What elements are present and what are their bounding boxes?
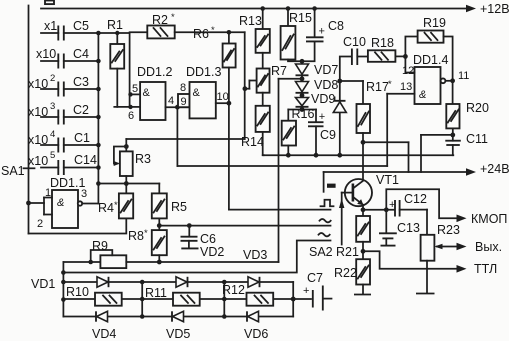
svg-text:VD5: VD5	[166, 327, 190, 341]
resistor R17*	[357, 79, 393, 145]
wire R17 bottom to +24 riser	[363, 142, 409, 172]
svg-text:+12В: +12В	[480, 2, 509, 16]
svg-text:КМОП: КМОП	[471, 212, 507, 226]
resistor R6*	[193, 25, 236, 103]
svg-text:C1: C1	[74, 131, 90, 145]
rail L2 (pin4 column to pin13)	[177, 94, 387, 166]
svg-text:R6: R6	[193, 27, 209, 41]
resistor R15	[281, 6, 312, 61]
svg-text:R9: R9	[92, 239, 108, 253]
diode VD7	[296, 61, 339, 81]
gate DD1.3	[186, 65, 221, 118]
svg-text:R18: R18	[371, 36, 394, 50]
net row R8 bottom y262	[159, 261, 278, 263]
diode top row 3	[248, 277, 260, 287]
zener diode (C10 node)	[333, 79, 346, 156]
capacitor C2 with x10^3 throw	[28, 101, 98, 125]
resistor R19	[403, 16, 453, 81]
svg-text:x1: x1	[44, 19, 57, 33]
svg-text:VD9: VD9	[311, 92, 335, 106]
svg-text:10: 10	[217, 91, 229, 103]
svg-text:R19: R19	[423, 16, 446, 30]
svg-text:R14: R14	[241, 135, 264, 149]
capacitor C11	[445, 132, 488, 155]
svg-text:R22: R22	[334, 266, 357, 280]
resistor R10	[66, 285, 122, 306]
svg-text:ТТЛ: ТТЛ	[474, 262, 497, 276]
potentiometer R23	[421, 223, 460, 293]
svg-text:R17: R17	[366, 80, 389, 94]
ground R23	[416, 293, 435, 295]
resistor R2*	[130, 12, 245, 38]
capacitor C7	[303, 271, 332, 311]
gate DD1.4	[387, 53, 469, 104]
svg-text:R13: R13	[239, 14, 262, 28]
ladder tie column right	[291, 282, 296, 317]
netB row y272.5 to SA2 sine throw	[61, 241, 330, 275]
resistor R9 with wiper	[63, 239, 159, 268]
capacitor C12	[389, 192, 427, 217]
svg-text:C3: C3	[73, 75, 89, 89]
svg-text:R16: R16	[292, 107, 315, 121]
svg-text:&: &	[143, 87, 151, 99]
diode top row 2	[176, 277, 188, 287]
svg-text:3: 3	[50, 101, 55, 112]
svg-text:R12: R12	[222, 283, 245, 297]
pin 10 wire DD1.3 output	[216, 91, 232, 106]
SA2 throw 3 sine wire from R5/R8 node	[159, 219, 330, 226]
node VD9 bottom taps	[288, 107, 316, 112]
svg-text:VD4: VD4	[92, 327, 116, 341]
wiper column wire to R3	[126, 32, 244, 139]
resistor R12	[222, 283, 273, 306]
svg-text:C11: C11	[466, 132, 488, 146]
svg-text:R10: R10	[66, 285, 89, 299]
svg-text:x10: x10	[28, 154, 48, 168]
svg-text:x10: x10	[28, 133, 48, 147]
svg-text:R20: R20	[466, 101, 489, 115]
svg-text:x10: x10	[28, 77, 48, 91]
resistor R11	[145, 286, 200, 306]
svg-text:C12: C12	[404, 192, 427, 206]
capacitor C5 with x1 throw	[41, 19, 98, 41]
pin 4 wire DD1.2 output	[166, 95, 190, 110]
svg-text:+24В: +24В	[480, 162, 509, 176]
svg-text:C5: C5	[73, 19, 89, 33]
svg-text:VD2: VD2	[200, 245, 224, 259]
Vyh output wiper arrow	[434, 240, 502, 254]
cropped symbol top-left	[45, 1, 54, 5]
svg-text:R3: R3	[135, 152, 151, 166]
svg-text:&: &	[57, 197, 64, 209]
SA2 throw 1 square symbol	[324, 172, 336, 192]
svg-text:8: 8	[180, 82, 186, 94]
diode VD2 (small)	[181, 241, 224, 259]
resistor R4*	[29, 184, 134, 234]
svg-text:R15: R15	[289, 11, 312, 25]
svg-text:&: &	[419, 89, 426, 101]
svg-text:R8: R8	[128, 229, 144, 243]
gate DD1.1	[26, 176, 87, 230]
ground R22	[354, 294, 371, 296]
potentiometer R3	[114, 139, 151, 184]
svg-text:C8: C8	[328, 19, 344, 33]
ladder tie column 2	[222, 280, 227, 319]
SA1 left rail	[1, 6, 35, 234]
capacitor C9	[308, 110, 336, 156]
svg-text:DD1.4: DD1.4	[413, 53, 448, 67]
resistor R14	[241, 93, 270, 156]
svg-text:C2: C2	[73, 103, 89, 117]
resistor R16	[282, 107, 315, 155]
SA2 throw 4 sine symbol	[319, 233, 330, 236]
svg-text:+: +	[319, 111, 325, 123]
svg-text:C10: C10	[343, 35, 366, 49]
resistor R8*	[128, 228, 167, 264]
wire timing node top row	[98, 31, 129, 107]
resistor R21	[336, 210, 370, 259]
svg-text:VD8: VD8	[314, 78, 338, 92]
capacitor C1 with x10^4 throw	[28, 129, 98, 153]
svg-text:VD7: VD7	[314, 63, 338, 77]
svg-text:x10: x10	[36, 47, 56, 61]
svg-text:*: *	[211, 25, 215, 36]
svg-text:R2: R2	[152, 13, 168, 27]
svg-text:5: 5	[132, 83, 138, 95]
rail L3 +24V	[324, 162, 509, 176]
svg-text:VD1: VD1	[31, 277, 55, 291]
svg-text:C7: C7	[307, 271, 323, 285]
svg-text:DD1.3: DD1.3	[186, 65, 221, 79]
diode VD4	[92, 311, 116, 341]
transistor VT1	[342, 142, 399, 210]
resistor R13	[239, 6, 270, 53]
svg-text:2: 2	[50, 73, 55, 84]
svg-text:C4: C4	[73, 47, 89, 61]
DD1.4 output bubble pin 11	[441, 78, 455, 83]
SA2 wiper	[309, 193, 344, 259]
ladder left vertical	[61, 262, 66, 317]
svg-text:4: 4	[50, 129, 55, 140]
svg-text:+: +	[319, 26, 325, 38]
rail L1 (R14 to C11 bottom)	[263, 153, 454, 158]
resistor R18	[368, 36, 406, 62]
TTL wire	[363, 251, 497, 276]
svg-text:R11: R11	[145, 286, 167, 300]
svg-text:R4: R4	[98, 201, 114, 215]
svg-text:x10: x10	[28, 105, 48, 119]
riser C12 to R23	[426, 210, 428, 235]
netA riser from VD7/VD8 node	[279, 79, 303, 262]
pin 9 box	[178, 82, 190, 108]
svg-text:C14: C14	[74, 153, 97, 167]
svg-text:3: 3	[81, 188, 87, 200]
KMOP wire	[386, 189, 507, 226]
svg-text:C9: C9	[320, 128, 336, 142]
svg-text:*: *	[388, 79, 392, 90]
diode VD1 (top row 1)	[97, 277, 109, 287]
resistor R22	[334, 259, 370, 294]
ladder tie column 1	[140, 280, 145, 319]
svg-text:DD1.2: DD1.2	[137, 65, 172, 79]
svg-text:*: *	[171, 12, 175, 23]
svg-text:6: 6	[128, 110, 134, 122]
resistor R5	[152, 184, 187, 231]
svg-text:VD6: VD6	[244, 327, 268, 341]
+12V top rail	[41, 2, 509, 16]
capacitor C3 with x10^2 throw	[28, 73, 98, 97]
SA2 throw 2 pulse wire from DD1.3 output	[229, 103, 334, 209]
capacitor C13	[379, 210, 420, 245]
ladder bottom row y316.5	[63, 316, 293, 318]
diode VD5	[166, 311, 190, 341]
resistor R1	[107, 18, 131, 107]
diode VD6	[244, 311, 268, 341]
svg-text:R21: R21	[336, 245, 359, 259]
gate DD1.2	[128, 65, 172, 122]
svg-text:*: *	[114, 200, 118, 211]
svg-text:R7: R7	[271, 64, 287, 78]
svg-text:SA2: SA2	[309, 245, 333, 259]
diode VD9	[296, 92, 336, 110]
diode VD8	[296, 78, 339, 98]
svg-text:4: 4	[168, 95, 174, 107]
riser C11/R20 node to +24 rail	[421, 135, 453, 172]
capacitor C8	[300, 6, 344, 63]
svg-text:C6: C6	[200, 232, 216, 246]
svg-text:13: 13	[400, 81, 412, 93]
svg-text:VD3: VD3	[243, 248, 267, 262]
wire R17 top from zener node	[340, 81, 363, 104]
svg-text:5: 5	[50, 150, 55, 161]
ladder mid row y299	[63, 298, 311, 300]
capacitor bus vertical	[96, 31, 101, 186]
capacitor C4 with x10 throw	[36, 47, 98, 69]
svg-text:R23: R23	[437, 223, 460, 237]
resistor R7 trimmer	[243, 53, 288, 93]
svg-text:12: 12	[402, 65, 414, 77]
svg-text:SA1: SA1	[1, 164, 25, 178]
svg-text:*: *	[144, 228, 148, 239]
svg-text:R5: R5	[171, 200, 187, 214]
svg-text:9: 9	[181, 96, 187, 108]
capacitor C14 with x10^5 throw	[28, 150, 98, 175]
svg-text:C13: C13	[397, 221, 420, 235]
DD1.1 output bubble pin 3	[78, 184, 99, 206]
capacitor C6	[181, 223, 217, 246]
diode ladder row top y282	[63, 281, 293, 283]
capacitor C10	[340, 35, 368, 81]
svg-text:+: +	[303, 285, 309, 297]
svg-text:VT1: VT1	[376, 173, 399, 187]
resistor R20	[446, 81, 489, 138]
svg-text:11: 11	[458, 70, 469, 82]
timing node wire y183.5	[98, 181, 159, 186]
svg-text:&: &	[193, 87, 201, 99]
svg-text:Вых.: Вых.	[475, 240, 502, 254]
ground C13	[381, 245, 396, 247]
svg-text:2: 2	[37, 218, 43, 230]
emitter node wire	[361, 207, 395, 212]
svg-text:R1: R1	[107, 18, 123, 32]
svg-text:1: 1	[45, 187, 51, 199]
